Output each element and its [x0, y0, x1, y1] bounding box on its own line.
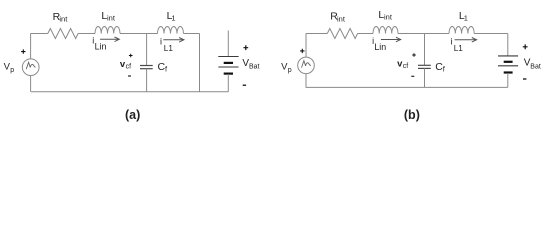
svg-text:p: p	[288, 67, 292, 74]
minus sign of battery (b)	[523, 78, 526, 80]
svg-text:int: int	[337, 14, 346, 23]
svg-text:Bat: Bat	[530, 64, 541, 71]
wire: capacitor branch (b), lower wire	[424, 68, 426, 87]
current arrow i_Lin (b)	[381, 37, 401, 42]
wire: source bottom lead (a)	[30, 75, 32, 92]
svg-text:cf: cf	[126, 63, 132, 70]
wire: battery bottom lead (b)	[507, 73, 509, 87]
svg-text:Lin: Lin	[374, 42, 386, 52]
battery V_Bat (b) plate 1 long	[498, 55, 518, 57]
svg-text:Bat: Bat	[249, 64, 260, 71]
wire: battery top lead (b)	[507, 34, 509, 56]
minus sign of v_cf (b)	[411, 75, 414, 77]
current arrow i_L1 (a)	[163, 38, 184, 43]
plus sign of source (b)	[300, 49, 304, 53]
wire: bottom rail (a)	[31, 91, 228, 93]
wire: top rail segment L1 to battery corner (b)	[474, 33, 508, 35]
svg-text:(a): (a)	[125, 108, 140, 122]
wire: bottom rail (b)	[306, 86, 508, 88]
resistor R_int (b) zigzag body	[327, 29, 357, 39]
inductor L1 (b) coil body	[449, 27, 474, 34]
battery V_Bat (a) plate 4 short thick	[224, 72, 233, 74]
wire: right side vertical of loop (a)	[199, 34, 201, 92]
minus sign of v_cf (a)	[128, 75, 131, 77]
battery V_Bat (b) plate 4 short thick	[504, 71, 513, 73]
battery V_Bat (b) plate 3 long	[498, 65, 518, 67]
svg-text:L1: L1	[454, 44, 464, 53]
wire: top rail segment L_int to L1 through capacitor node (b)	[398, 33, 449, 35]
wire: top rail segment resistor to inductor L_int (a)	[78, 33, 95, 35]
inductor L_int (b) coil body	[373, 26, 398, 33]
source V_p (a) squiggle	[26, 62, 35, 69]
wire: source bottom lead (b)	[305, 74, 307, 88]
svg-text:int: int	[59, 15, 68, 24]
capacitor C_f (a) plates	[140, 65, 153, 67]
battery V_Bat (a) plate 2 short thick	[224, 62, 233, 64]
svg-text:int: int	[107, 13, 116, 22]
source V_p (a) circle	[22, 59, 39, 76]
svg-text:1: 1	[171, 13, 175, 22]
current arrow i_Lin (a)	[100, 37, 119, 42]
svg-text:cf: cf	[403, 63, 409, 70]
plus sign of source (a)	[21, 49, 25, 53]
svg-text:Lin: Lin	[95, 41, 107, 51]
svg-text:1: 1	[464, 13, 468, 22]
battery V_Bat (a) plate 3 long	[218, 66, 238, 68]
current arrow i_L1 (b)	[455, 38, 477, 43]
wire: capacitor branch (a), lower wire	[146, 69, 148, 92]
svg-text:int: int	[384, 13, 393, 22]
battery V_Bat (a) top stub (unconnected)	[227, 31, 229, 57]
wire: top rail segment source to resistor (a)	[31, 33, 48, 35]
minus sign of battery (a)	[243, 84, 246, 86]
plus sign of v_cf (b)	[412, 53, 416, 57]
inductor L1 (a) coil body	[158, 27, 184, 34]
source V_p (b) circle	[298, 57, 315, 74]
wire: source top lead (a)	[30, 34, 32, 59]
node: capacitor branch (b), upper wire	[424, 34, 426, 66]
wire: top rail segment source to resistor (b)	[306, 33, 327, 35]
battery V_Bat (b) plate 2 short thick	[504, 61, 513, 63]
resistor R_int (a) zigzag body	[48, 29, 78, 39]
svg-text:i: i	[160, 37, 162, 47]
node: capacitor branch (a), upper wire	[146, 34, 148, 66]
wire: source top lead (b)	[305, 34, 307, 58]
plus sign of v_cf (a)	[129, 54, 133, 58]
capacitor C_f (b) plates	[418, 64, 431, 66]
svg-text:f: f	[165, 65, 168, 74]
inductor L_int (a) coil body	[95, 26, 120, 33]
source V_p (b) squiggle	[302, 61, 311, 68]
wire: top rail segment L_int to L1 through capacitor node (a)	[120, 33, 158, 35]
wire: top rail segment L1 to right corner (a)	[184, 33, 200, 35]
svg-text:L1: L1	[164, 44, 174, 53]
plus sign of battery (a)	[243, 45, 248, 50]
svg-text:p: p	[10, 67, 14, 74]
wire: battery bottom lead (a)	[227, 74, 229, 92]
svg-text:(b): (b)	[404, 108, 420, 122]
wire: top rail segment resistor to inductor L_int (b)	[358, 33, 373, 35]
svg-text:i: i	[451, 37, 453, 47]
plus sign of battery (b)	[523, 44, 528, 49]
battery V_Bat (a) plate 1 long	[218, 56, 238, 58]
svg-text:f: f	[443, 65, 446, 74]
